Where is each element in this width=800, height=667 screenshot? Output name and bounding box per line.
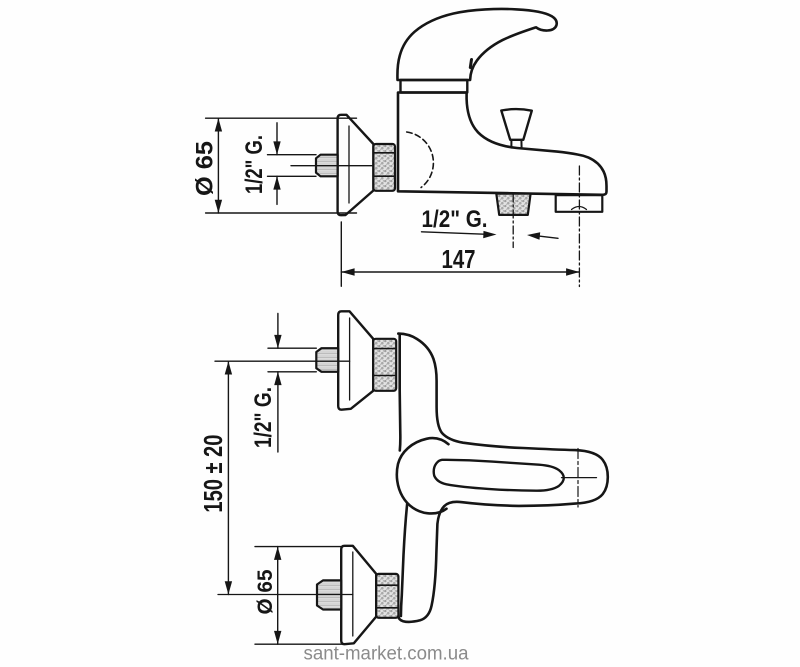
dimension 1/2 G arrows line [276, 123, 278, 205]
escutcheon cone (wall side) [338, 115, 374, 215]
svg-text:1/2" G.: 1/2" G. [250, 387, 277, 448]
shower outlet stub 1/2" [496, 194, 530, 215]
aerator arc [572, 207, 587, 210]
nipple extension lines (bottom drawing) [268, 348, 316, 372]
nipple extension lines [268, 155, 317, 177]
handle centerline cross vertical [577, 449, 579, 508]
diverter knob stem [511, 140, 521, 148]
handle centerline cross horizontal [562, 477, 597, 479]
dimension Ø65 line (bottom) [277, 547, 279, 645]
svg-text:147: 147 [442, 244, 476, 274]
handle cap band [401, 80, 468, 93]
cartridge dome (hidden, dashed) [407, 132, 434, 188]
threaded nipple 1/2" [316, 155, 338, 177]
faucet body with spout [398, 93, 607, 195]
leader right segment [540, 236, 558, 238]
arrowhead 147 left [341, 268, 354, 275]
arrowhead 150 top [225, 361, 232, 374]
dimension Ø65 extension lines (top view) [206, 118, 357, 213]
dimension 150 line [227, 361, 229, 594]
svg-text:Ø 65: Ø 65 [254, 569, 277, 614]
arrowhead nipple top [273, 141, 280, 154]
svg-text:1/2" G.: 1/2" G. [422, 206, 488, 233]
upper hex nut flats [373, 349, 396, 376]
trunk left edge lower [401, 504, 407, 617]
lever handle [397, 9, 556, 80]
lower threaded nipple [317, 580, 341, 609]
cartridge dome bulge [397, 438, 449, 513]
svg-text:1/2" G.: 1/2" G. [241, 135, 268, 194]
upper threaded nipple [316, 348, 338, 372]
arrowhead 1/2G down (bottom) [274, 335, 281, 348]
faucet body trunk and handle outline [398, 334, 608, 622]
arrowhead Ø65 bottom (bottom drawing) [274, 631, 281, 644]
arrowhead 1/2G up (bottom) [274, 372, 281, 385]
handle grip slot [434, 460, 564, 491]
upper hex nut [373, 339, 396, 391]
lower hex nut [376, 574, 398, 618]
upper inlet axis [215, 360, 350, 362]
escutcheon rim line [348, 126, 350, 203]
arrowhead 150 bottom [225, 581, 232, 594]
dimension Ø65 extension lines (bottom) [255, 547, 342, 645]
svg-text:sant-market.com.ua: sant-market.com.ua [304, 644, 469, 665]
dimension 147 line [341, 271, 579, 273]
arrowhead Ø65 top (bottom drawing) [274, 547, 281, 560]
arrowhead nipple bottom [273, 176, 280, 189]
dimension 147 extension line [340, 222, 342, 286]
lower inlet axis [218, 594, 353, 596]
upper escutcheon cone [338, 311, 373, 409]
lower escutcheon rim line [352, 552, 354, 636]
arrowhead leader to stub right [527, 232, 540, 239]
svg-text:150 ± 20: 150 ± 20 [198, 435, 228, 513]
dimension 1/2 G arrows (bottom drawing) [277, 314, 279, 453]
spout outlet centerline [578, 166, 580, 287]
arrowhead leader to stub left [483, 231, 496, 238]
arrowhead Ø65 bottom [215, 200, 222, 213]
hex nut flats [373, 153, 395, 176]
leader line 1/2 G to stub [422, 232, 485, 234]
svg-text:Ø 65: Ø 65 [192, 141, 219, 196]
lower escutcheon cone [341, 546, 376, 644]
shower stub centerline [512, 194, 514, 248]
dimension Ø65 line [217, 118, 219, 213]
arrowhead 147 right [566, 268, 579, 275]
inlet axis centerline [291, 165, 372, 167]
lower hex nut flats [376, 585, 398, 608]
arrowhead Ø65 top [215, 118, 222, 131]
hex nut [373, 144, 395, 191]
diverter knob [501, 109, 532, 140]
spout outlet housing [556, 195, 603, 212]
upper escutcheon rim line [349, 318, 351, 400]
handle notch [470, 60, 471, 68]
trunk left edge upper [398, 335, 401, 450]
